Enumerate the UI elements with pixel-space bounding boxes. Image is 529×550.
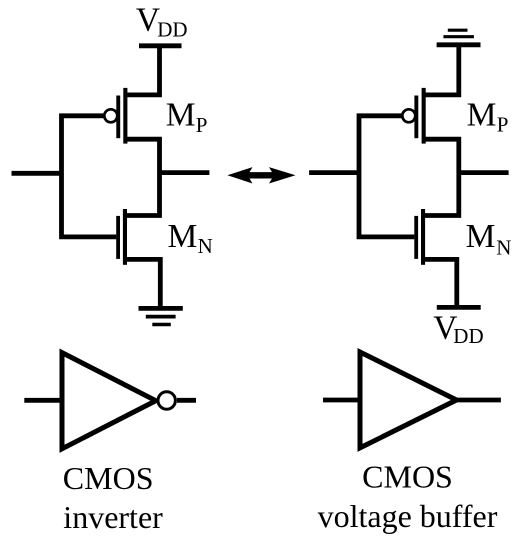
double-headed arrow	[227, 167, 295, 183]
svg-text:DD: DD	[453, 324, 483, 348]
wire buffer input	[323, 398, 360, 403]
svg-text:P: P	[497, 113, 509, 137]
svg-text:M: M	[166, 97, 196, 134]
wire input bus with gate connections (left)	[62, 116, 117, 237]
label VDD (left)	[136, 2, 188, 42]
svg-text:CMOS: CMOS	[362, 458, 453, 494]
svg-text:CMOS: CMOS	[63, 460, 154, 496]
buffer triangle	[360, 352, 457, 448]
wire inverter input	[24, 398, 62, 403]
transistor MN (right NMOS)	[414, 209, 425, 265]
svg-text:inverter: inverter	[63, 499, 163, 535]
wire PMOS drain to output node (left)	[125, 139, 160, 215]
wire output stub (right)	[459, 170, 509, 175]
wire buffer output	[457, 398, 501, 403]
wire input bus with gate connections (right)	[359, 116, 414, 237]
ground symbol (left)	[139, 308, 183, 324]
label CMOS inverter	[63, 460, 163, 535]
label MN (left)	[168, 218, 213, 258]
svg-text:M: M	[168, 218, 198, 255]
ground symbol top (right, inverted)	[437, 30, 481, 45]
svg-text:N: N	[198, 234, 213, 258]
wire NMOS source to ground (left)	[125, 259, 160, 308]
wire NMOS source to VDD rail (right)	[423, 259, 457, 307]
inverter triangle	[62, 353, 156, 449]
svg-text:P: P	[196, 113, 208, 137]
label MP (right)	[467, 96, 509, 136]
wire input stub (left)	[12, 171, 62, 176]
svg-text:N: N	[496, 236, 511, 260]
power rail VDD (right)	[437, 305, 481, 310]
inverter bubble	[158, 392, 175, 409]
wire inverter output	[177, 398, 196, 403]
label MN (right)	[466, 218, 512, 259]
svg-text:voltage buffer: voltage buffer	[318, 498, 498, 534]
power rail VDD (left)	[139, 43, 182, 48]
wire PMOS drain to output node (right)	[423, 139, 459, 215]
svg-text:DD: DD	[157, 17, 187, 41]
transistor MN (left NMOS)	[116, 209, 127, 265]
svg-text:M: M	[466, 218, 496, 255]
wire VDD rail to PMOS source	[125, 46, 159, 95]
label VDD (right)	[433, 309, 483, 348]
transistor MP (left PMOS)	[104, 88, 127, 144]
wire top ground to PMOS source (right)	[424, 45, 459, 95]
wire output stub (left)	[160, 170, 210, 175]
svg-text:M: M	[467, 96, 497, 133]
label CMOS voltage buffer	[318, 458, 498, 534]
label MP (left)	[166, 97, 208, 137]
wire input stub (right)	[309, 170, 359, 175]
transistor MP (right PMOS)	[402, 88, 425, 144]
